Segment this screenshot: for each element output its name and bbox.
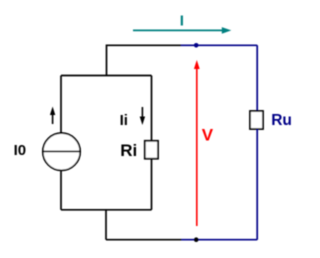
wire: right branch upper (navy) bbox=[256, 45, 258, 111]
svg-text:I: I bbox=[180, 13, 184, 30]
svg-text:I0: I0 bbox=[14, 142, 27, 159]
svg-text:Ru: Ru bbox=[271, 112, 292, 129]
wire: top rail navy segment to Ru branch bbox=[181, 44, 257, 46]
resistor Ri bbox=[145, 141, 158, 159]
wire: top connector vertical bbox=[106, 45, 108, 76]
arrow: current I (teal, rightward) bbox=[133, 27, 231, 34]
arrow: Ii direction (down) bbox=[140, 107, 145, 125]
wire: inner loop top edge bbox=[61, 75, 152, 77]
wire: bottom rail black segment bbox=[106, 239, 182, 241]
wire: inner loop left edge upper (to current source) bbox=[60, 76, 62, 134]
current source I0 bbox=[43, 133, 80, 170]
wire: inner loop left edge lower bbox=[60, 170, 62, 209]
node: top junction (navy dot) bbox=[194, 43, 199, 48]
wire: inner loop right edge lower bbox=[151, 159, 153, 210]
arrow: voltage V (red, upward) bbox=[194, 60, 200, 226]
wire: inner loop bottom edge bbox=[61, 209, 152, 211]
wire: inner loop right edge upper (to Ri) bbox=[151, 76, 153, 141]
resistor Ru bbox=[250, 111, 263, 129]
wire: top rail black segment bbox=[107, 44, 182, 46]
svg-text:Ri: Ri bbox=[120, 141, 137, 160]
svg-text:Ii: Ii bbox=[120, 112, 128, 129]
wire: right branch lower (navy) bbox=[256, 129, 258, 240]
svg-text:V: V bbox=[202, 126, 214, 145]
wire: bottom connector vertical bbox=[105, 210, 107, 240]
wire: bottom rail navy segment bbox=[182, 239, 258, 241]
arrow: I0 direction (up) bbox=[50, 107, 55, 125]
node: bottom junction (black dot) bbox=[194, 237, 199, 242]
